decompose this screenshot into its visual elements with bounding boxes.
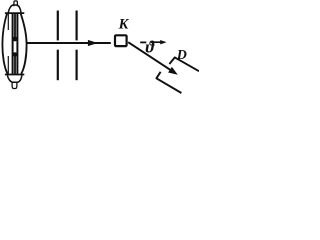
x-ray tube: top terminal cap (14, 1, 18, 6)
x-ray tube: electrode left bar (12, 13, 14, 74)
x-ray tube: cathode tip blob (13, 37, 17, 42)
detector upper wall (169, 57, 199, 71)
svg-text:K: K (118, 17, 130, 33)
detector lower wall (156, 72, 181, 93)
x-ray tube: top bell base line (5, 12, 24, 14)
dashed axis arrowhead (160, 40, 166, 44)
crystal K square (115, 35, 127, 46)
slit screen 1 upper segment (57, 11, 59, 41)
slit screen 1 lower segment (57, 50, 59, 80)
x-ray tube: bulb left wall (2, 14, 7, 74)
x-ray tube: electrode left flank lead lower (7, 56, 9, 74)
x-ray tube: bottom bell dome (7, 75, 22, 82)
dashed axis segment (140, 41, 146, 43)
x-ray tube: electrode right bar (16, 13, 18, 74)
x-ray tube: electrode centre bar lower (14, 53, 16, 74)
background (0, 0, 199, 95)
x-ray tube: electrode left flank lead upper (7, 14, 9, 30)
x-ray tube: bottom bell base line (5, 74, 24, 76)
x-ray tube: bottom terminal cap (12, 82, 17, 89)
x-ray tube: electrode centre bar upper (14, 13, 16, 41)
scattered ray wire (128, 42, 170, 70)
x-ray tube: top bell dome (8, 5, 21, 13)
scattered ray arrowhead (168, 67, 178, 75)
slit screen 2 upper segment (75, 11, 77, 41)
primary beam wire (26, 42, 111, 44)
x-ray tube: anode tip blob (13, 52, 17, 56)
x-ray tube: bulb right wall (21, 14, 27, 74)
svg-text:D: D (176, 48, 187, 63)
primary beam arrowhead (88, 40, 98, 46)
slit screen 2 lower segment (75, 50, 77, 80)
dashed axis arrow line (151, 41, 165, 43)
